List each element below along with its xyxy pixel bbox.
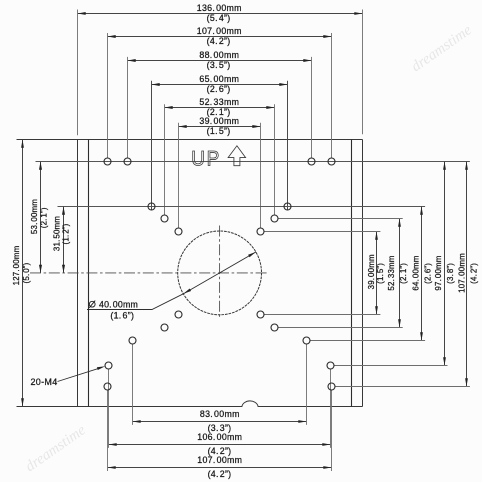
- svg-text:106. 00mm: 106. 00mm: [197, 432, 242, 442]
- extension line 136mm left: [77, 10, 79, 136]
- svg-text:107. 00mm: 107. 00mm: [197, 455, 242, 465]
- center circle 40mm (dashed): [178, 231, 262, 315]
- left dimension 53.00mm: [30, 162, 48, 273]
- extension line 39mm left: [178, 123, 180, 228]
- svg-text:(4. 2”): (4. 2”): [208, 469, 232, 479]
- hole G2: [328, 383, 335, 390]
- UP text: [191, 146, 219, 170]
- extension line 65mm right: [287, 81, 289, 211]
- top dimension 65.00mm: [152, 74, 288, 94]
- svg-text:(2. 1”): (2. 1”): [39, 207, 48, 228]
- svg-text:88. 00mm: 88. 00mm: [199, 50, 239, 60]
- svg-text:136. 00mm: 136. 00mm: [197, 3, 242, 13]
- extension line 52.33mm top right: [278, 218, 403, 220]
- extension line 52.33mm bottom right: [278, 327, 403, 329]
- extension line 106mm right: [330, 369, 332, 448]
- extension line 106mm left: [108, 369, 110, 448]
- extension line 39mm right: [260, 123, 262, 228]
- bottom dimension 83.00mm: [133, 409, 307, 433]
- right dimension 39.00mm: [367, 232, 385, 315]
- svg-text:(1. 2”): (1. 2”): [62, 223, 71, 244]
- svg-text:(1. 5”): (1. 5”): [207, 126, 231, 136]
- right dimension 52.33mm: [387, 219, 408, 328]
- svg-text:(2. 6”): (2. 6”): [207, 84, 231, 94]
- svg-text:97. 00mm: 97. 00mm: [434, 255, 443, 290]
- extension line 107mm bottom left: [107, 390, 109, 471]
- top dimension 39.00mm: [179, 116, 261, 136]
- bottom dimension 106.00mm: [109, 432, 331, 456]
- svg-text:(4. 2”): (4. 2”): [207, 36, 231, 46]
- hole B2: [284, 203, 291, 210]
- plate top edge: [17, 139, 363, 141]
- bottom dimension 107.00mm: [108, 455, 332, 479]
- horizontal centerline: [30, 272, 268, 274]
- hole B1: [148, 203, 155, 210]
- left fold line: [88, 140, 90, 407]
- svg-text:107. 00mm: 107. 00mm: [458, 253, 467, 293]
- svg-text:(3. 5”): (3. 5”): [207, 60, 231, 70]
- hole C3: [161, 324, 168, 331]
- extension line 83mm right: [306, 344, 308, 425]
- right dimension 97.00mm: [434, 162, 455, 366]
- svg-text:U P: U P: [191, 146, 219, 170]
- second hole row line: [58, 206, 426, 208]
- extension line 83mm left: [132, 344, 134, 425]
- svg-text:20-M4: 20-M4: [30, 377, 57, 387]
- svg-text:(5. 0”): (5. 0”): [22, 262, 31, 283]
- extension line 64mm bottom right: [310, 340, 425, 342]
- svg-text:53. 00mm: 53. 00mm: [30, 199, 39, 234]
- svg-text:39. 00mm: 39. 00mm: [199, 116, 239, 126]
- extension line 88mm left: [127, 57, 129, 158]
- svg-text:107. 00mm: 107. 00mm: [197, 26, 242, 36]
- hole D2: [257, 228, 264, 235]
- top dimension 136.00mm: [78, 3, 363, 23]
- svg-text:(1. 5”): (1. 5”): [376, 263, 385, 284]
- hole A1: [104, 158, 111, 165]
- svg-text:(2. 1”): (2. 1”): [399, 263, 408, 284]
- svg-text:52. 33mm: 52. 33mm: [387, 255, 396, 290]
- extension line 39mm bottom right: [264, 314, 381, 316]
- top dimension 88.00mm: [128, 50, 312, 70]
- 20-M4 leader line: [58, 366, 106, 381]
- right fold line: [351, 140, 353, 407]
- extension line 107mm bottom right: [335, 386, 470, 388]
- top dimension 107.00mm: [108, 26, 332, 46]
- hole C2: [271, 215, 278, 222]
- left dimension 31.50mm: [53, 207, 71, 273]
- right dimension 64.00mm: [412, 207, 433, 341]
- svg-text:(1. 6”): (1. 6”): [110, 310, 134, 320]
- upper hole row line: [36, 161, 470, 163]
- hole C4: [271, 324, 278, 331]
- plate bottom edge with cable notch: [17, 401, 363, 407]
- left dimension 127.00mm: [12, 140, 31, 407]
- hole D4: [257, 311, 264, 318]
- extension line 107mm right: [331, 33, 333, 158]
- svg-text:65. 00mm: 65. 00mm: [199, 74, 239, 84]
- hole A2: [124, 158, 131, 165]
- extension line 52.33mm left: [164, 104, 166, 215]
- vertical centerline: [219, 226, 221, 319]
- extension line 107mm left: [107, 33, 109, 158]
- extension line 88mm right: [311, 57, 313, 158]
- svg-text:127. 00mm: 127. 00mm: [12, 245, 21, 285]
- extension line 107mm bottom right v: [331, 390, 333, 471]
- diameter leader line: [87, 294, 183, 310]
- svg-text:(4. 2”): (4. 2”): [470, 263, 479, 284]
- UP arrow symbol: [228, 146, 246, 166]
- svg-text:39. 00mm: 39. 00mm: [367, 254, 376, 289]
- diameter arrow line: [183, 252, 256, 294]
- svg-text:83. 00mm: 83. 00mm: [200, 409, 240, 419]
- hole D1: [175, 228, 182, 235]
- extension line 39mm top right: [264, 231, 381, 233]
- plate right edge: [362, 140, 364, 407]
- svg-text:40. 00mm: 40. 00mm: [99, 299, 138, 309]
- svg-text:(3. 8”): (3. 8”): [446, 263, 455, 284]
- hole A4: [328, 158, 335, 165]
- hole E2: [303, 337, 310, 344]
- extension line 65mm left: [151, 81, 153, 211]
- svg-text:(5. 4”): (5. 4”): [207, 13, 231, 23]
- svg-text:64. 00mm: 64. 00mm: [412, 255, 421, 290]
- svg-text:(2. 6”): (2. 6”): [424, 263, 433, 284]
- svg-text:31. 50mm: 31. 50mm: [53, 216, 62, 251]
- label 20-M4: [30, 377, 57, 387]
- extension line 97mm bottom right: [334, 365, 447, 367]
- svg-text:52. 33mm: 52. 33mm: [199, 97, 239, 107]
- diameter label: [89, 299, 138, 320]
- hole D3: [175, 311, 182, 318]
- extension line 136mm right: [362, 10, 364, 135]
- extension line 52.33mm right: [274, 104, 276, 215]
- plate left edge: [77, 140, 79, 407]
- top dimension 52.33mm: [165, 97, 275, 117]
- hole E1: [129, 337, 136, 344]
- hole A3: [308, 158, 315, 165]
- hole F1: [105, 362, 112, 369]
- hole F2: [327, 362, 334, 369]
- right dimension 107.00mm: [458, 162, 479, 387]
- hole G1: [104, 383, 111, 390]
- hole C1: [161, 215, 168, 222]
